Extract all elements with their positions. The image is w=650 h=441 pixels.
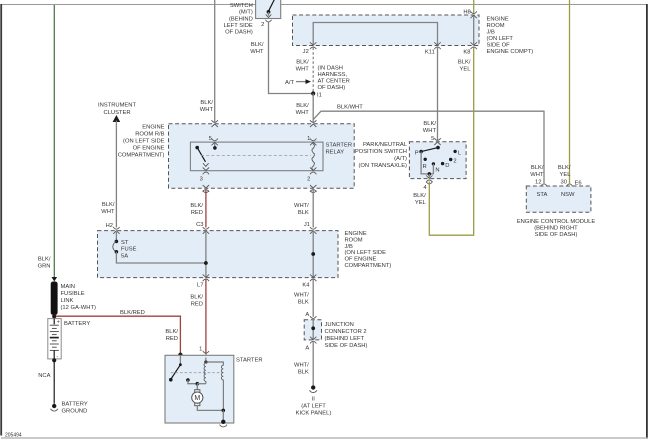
svg-text:(A/T): (A/T) (394, 156, 407, 162)
contact L (453, 150, 456, 153)
wire BLK/WHT I1 down to starter relay terminal 1 (312, 94, 314, 123)
svg-text:LEFT SIDE: LEFT SIDE (224, 23, 253, 29)
park/neutral position switch box (409, 142, 466, 179)
svg-text:K4: K4 (302, 283, 310, 289)
svg-text:RED: RED (191, 210, 203, 216)
svg-text:NSW: NSW (561, 192, 575, 198)
starter box (165, 355, 234, 423)
wire P and N to pin 4 (421, 152, 434, 174)
wire BLK/YEL pin 4 to K8 (429, 48, 473, 236)
svg-text:KICK PANEL): KICK PANEL) (296, 411, 332, 417)
starter relay inner box (190, 142, 323, 171)
svg-text:ROOM: ROOM (487, 23, 505, 29)
terminal K4 (310, 274, 316, 281)
svg-text:1: 1 (199, 347, 202, 353)
contact 2 (449, 158, 452, 161)
ST fuse 5A (115, 232, 117, 241)
svg-text:CONNECTOR 2: CONNECTOR 2 (325, 329, 367, 335)
svg-text:H8: H8 (463, 10, 470, 16)
svg-text:BLK: BLK (298, 370, 309, 376)
svg-text:L7: L7 (197, 283, 203, 289)
starter hold-in coil (206, 362, 223, 410)
svg-text:BLK: BLK (298, 210, 309, 216)
svg-text:OF DASH): OF DASH) (318, 85, 346, 91)
wire H8 to K8 inside J/B (473, 16, 475, 45)
svg-text:INSTRUMENT: INSTRUMENT (98, 103, 136, 109)
terminal K8 (471, 42, 477, 49)
svg-text:JUNCTION: JUNCTION (325, 322, 354, 328)
terminal 1 of starter relay (310, 120, 316, 127)
wire bus J2 to K11 inside J/B (313, 23, 437, 45)
starter ground (220, 420, 228, 427)
svg-text:BLK/: BLK/ (190, 295, 203, 301)
svg-text:ENGINE: ENGINE (345, 231, 367, 237)
engine room J/B upper box (293, 15, 480, 46)
svg-text:(ON LEFT SIDE: (ON LEFT SIDE (345, 250, 387, 256)
svg-text:J1: J1 (304, 222, 310, 228)
wire BLK/YEL from top of page to ECM NSW (569, 0, 571, 183)
svg-text:3: 3 (200, 177, 203, 183)
main fusible link (51, 282, 58, 315)
wire BLK/WHT clutch switch to node I1 (269, 23, 312, 94)
svg-text:(BEHIND: (BEHIND (229, 17, 253, 23)
junction connector 2 (304, 320, 321, 340)
svg-text:RED: RED (191, 302, 203, 308)
svg-text:D: D (445, 163, 449, 169)
svg-text:2: 2 (307, 177, 310, 183)
terminal L7 (203, 274, 209, 281)
starter contact to motor (186, 378, 190, 382)
svg-text:SIDE OF DASH): SIDE OF DASH) (325, 343, 368, 349)
svg-text:FUSE: FUSE (121, 247, 137, 253)
svg-text:AT CENTER: AT CENTER (318, 79, 350, 85)
svg-text:K11: K11 (425, 50, 435, 56)
svg-text:BLK/: BLK/ (190, 203, 203, 209)
terminal 3 of starter relay (203, 168, 209, 175)
relay mechanical link (201, 154, 311, 156)
svg-text:BATTERY: BATTERY (64, 321, 90, 327)
svg-text:BLK/WHT: BLK/WHT (337, 105, 363, 111)
svg-text:J2: J2 (303, 49, 309, 55)
relay movable contact (195, 146, 199, 150)
svg-text:(ON LEFT SIDE: (ON LEFT SIDE (123, 139, 165, 145)
svg-text:N: N (435, 167, 439, 173)
svg-text:ST: ST (121, 240, 129, 246)
svg-text:BLK/: BLK/ (558, 165, 571, 171)
svg-text:(IN DASH: (IN DASH (318, 66, 343, 72)
svg-text:STARTER: STARTER (326, 142, 353, 148)
svg-text:WHT: WHT (296, 110, 310, 116)
svg-text:CLUSTER: CLUSTER (103, 110, 130, 116)
svg-text:(12 GA-WHT): (12 GA-WHT) (61, 305, 96, 311)
node I1 (311, 91, 315, 95)
svg-text:5: 5 (431, 136, 434, 142)
wire BLK/RED L7 to starter pin 1 (205, 280, 207, 355)
wire BLK/RED relay terminal 3 to C3 (203, 191, 209, 193)
svg-text:WHT: WHT (250, 49, 264, 55)
svg-text:C3: C3 (196, 222, 203, 228)
svg-text:(M/T): (M/T) (239, 10, 253, 16)
node pull-in coil / motor (196, 382, 200, 386)
svg-text:BLK/: BLK/ (296, 60, 309, 66)
svg-text:A: A (305, 346, 309, 352)
svg-text:BLK/: BLK/ (531, 165, 544, 171)
wire motor to starter ground (197, 406, 223, 411)
ground II at left kick panel (309, 385, 317, 392)
svg-text:YEL: YEL (415, 200, 427, 206)
svg-text:ENGINE CONTROL MODULE: ENGINE CONTROL MODULE (517, 219, 596, 225)
svg-text:J/B: J/B (487, 30, 496, 36)
svg-text:BLK/: BLK/ (38, 257, 51, 263)
svg-text:OF ENGINE: OF ENGINE (133, 146, 165, 152)
svg-text:I1: I1 (317, 92, 322, 98)
wire BLK/WHT K11 to park/neutral switch pin 5 (437, 48, 439, 141)
wire battery negative to ground (53, 360, 55, 403)
svg-text:WHT/: WHT/ (294, 363, 309, 369)
svg-text:BLK/: BLK/ (200, 100, 213, 106)
contact D (441, 162, 444, 165)
P/N switch common node (436, 146, 440, 150)
clutch start switch (M/T) (256, 0, 281, 19)
svg-text:BLK/: BLK/ (251, 42, 264, 48)
svg-text:SIDE OF: SIDE OF (487, 43, 511, 49)
battery B1 (48, 319, 61, 359)
svg-text:BLK: BLK (298, 300, 309, 306)
wire C3 to L7 inside box (205, 231, 207, 278)
svg-text:A/T: A/T (285, 80, 294, 86)
svg-text:ENGINE: ENGINE (142, 125, 164, 131)
starter pull-in coil from pin 1 (204, 360, 207, 363)
svg-text:(BEHIND LEFT: (BEHIND LEFT (325, 336, 365, 342)
svg-text:SIDE OF DASH): SIDE OF DASH) (535, 232, 578, 238)
svg-text:FUSIBLE: FUSIBLE (61, 291, 85, 297)
svg-text:NCA: NCA (38, 373, 50, 379)
svg-text:WHT/: WHT/ (294, 203, 309, 209)
svg-text:BLK/: BLK/ (102, 202, 115, 208)
svg-text:P: P (415, 150, 419, 156)
svg-text:(BEHIND RIGHT: (BEHIND RIGHT (534, 226, 578, 232)
svg-text:(ON TRANSAXLE): (ON TRANSAXLE) (358, 163, 407, 169)
svg-text:BLK/: BLK/ (458, 60, 471, 66)
wire BLK/WHT from top of page to relay terminal 5 (214, 0, 216, 123)
svg-text:WHT/: WHT/ (294, 293, 309, 299)
wire WHT/BLK K4 to junction connector 2 (312, 280, 314, 317)
svg-text:ENGINE COMPT): ENGINE COMPT) (487, 49, 534, 55)
svg-text:STA: STA (537, 192, 548, 198)
wire BLK/WHT branch I1 to ECM STA (313, 111, 544, 183)
svg-text:M: M (194, 395, 200, 402)
terminal A lower (310, 337, 316, 344)
svg-text:BLK/: BLK/ (165, 329, 178, 335)
battery ground (50, 404, 58, 411)
engine room J/B lower box (98, 231, 339, 278)
svg-text:2: 2 (453, 158, 456, 164)
svg-text:MAIN: MAIN (61, 284, 76, 290)
wire BLK/WHT instrument cluster to H2 (115, 121, 117, 228)
wire fuse to C3 line (116, 252, 205, 263)
svg-text:RED: RED (166, 336, 178, 342)
svg-text:J/B: J/B (345, 244, 354, 250)
svg-text:WHT: WHT (200, 107, 214, 113)
svg-text:ROOM: ROOM (345, 237, 363, 243)
contact R (424, 158, 427, 161)
svg-text:II: II (312, 397, 316, 403)
svg-text:YEL: YEL (460, 67, 472, 73)
svg-text:30: 30 (561, 180, 567, 186)
svg-text:WHT: WHT (530, 172, 544, 178)
svg-text:STARTER: STARTER (236, 358, 263, 364)
svg-text:+: + (57, 319, 60, 325)
terminal 5 of starter relay (212, 120, 218, 127)
wire WHT/BLK junction connector to ground II (312, 342, 314, 385)
wire BLK/WHT A/T dashed J2 to I1 (312, 48, 314, 93)
svg-text:LINK: LINK (61, 298, 74, 304)
starter mechanical link (171, 372, 224, 374)
svg-text:PARK/NEUTRAL: PARK/NEUTRAL (363, 142, 408, 148)
svg-text:K8: K8 (463, 50, 470, 56)
svg-text:GRN: GRN (38, 264, 51, 270)
svg-text:H2: H2 (106, 223, 113, 229)
svg-text:BLK/RED: BLK/RED (120, 310, 145, 316)
contact N (432, 162, 435, 165)
terminal J2 (310, 42, 316, 49)
svg-text:R: R (423, 164, 427, 170)
wire WHT/BLK relay terminal 2 to J1 (310, 191, 316, 193)
svg-text:POSITION SWITCH: POSITION SWITCH (355, 149, 407, 155)
svg-text:ENGINE: ENGINE (487, 17, 509, 23)
engine room R/B box (169, 124, 355, 188)
starter contact from battery (179, 355, 181, 364)
svg-text:GROUND: GROUND (62, 409, 88, 415)
svg-text:A: A (305, 312, 309, 318)
svg-text:OF DASH): OF DASH) (225, 30, 253, 36)
svg-text:BLK/: BLK/ (423, 121, 436, 127)
svg-text:ROOM R/B: ROOM R/B (135, 132, 164, 138)
starter motor M (195, 390, 200, 393)
svg-text:BATTERY: BATTERY (62, 402, 88, 408)
svg-text:WHT: WHT (296, 67, 310, 73)
node at fusible link / battery + (52, 314, 56, 318)
wire J1 to K4 inside box (312, 231, 314, 278)
wire BLK/GRN from top to fusible link (53, 5, 55, 278)
svg-text:RELAY: RELAY (326, 149, 345, 155)
svg-text:2: 2 (261, 22, 264, 28)
svg-text:COMPARTMENT): COMPARTMENT) (118, 153, 165, 159)
svg-text:WHT: WHT (423, 128, 437, 134)
svg-text:(ON LEFT: (ON LEFT (487, 36, 514, 42)
ECM box (526, 186, 591, 212)
svg-text:BLK/: BLK/ (296, 103, 309, 109)
pin 4 of park/neutral switch (426, 175, 432, 182)
relay fixed contact node (213, 146, 217, 150)
svg-text:OF ENGINE: OF ENGINE (345, 257, 377, 263)
svg-text:BLK/: BLK/ (413, 193, 426, 199)
contact P (419, 150, 423, 154)
svg-text:SWITCH: SWITCH (230, 3, 253, 9)
svg-text:205494: 205494 (5, 433, 22, 439)
svg-text:YEL: YEL (560, 172, 572, 178)
relay coil (312, 143, 314, 144)
svg-text:HARNESS,: HARNESS, (318, 72, 348, 78)
svg-text:5A: 5A (121, 253, 128, 259)
wire BLK/RED battery to starter (56, 316, 180, 354)
svg-text:12: 12 (535, 180, 541, 186)
svg-text:WHT: WHT (101, 209, 115, 215)
terminal K11 (434, 42, 440, 49)
wire BLK/YEL H8 from top of page (473, 0, 475, 13)
terminal 2 of starter relay (310, 168, 316, 175)
svg-text:(AT LEFT: (AT LEFT (301, 404, 326, 410)
svg-text:COMPARTMENT): COMPARTMENT) (345, 263, 392, 269)
